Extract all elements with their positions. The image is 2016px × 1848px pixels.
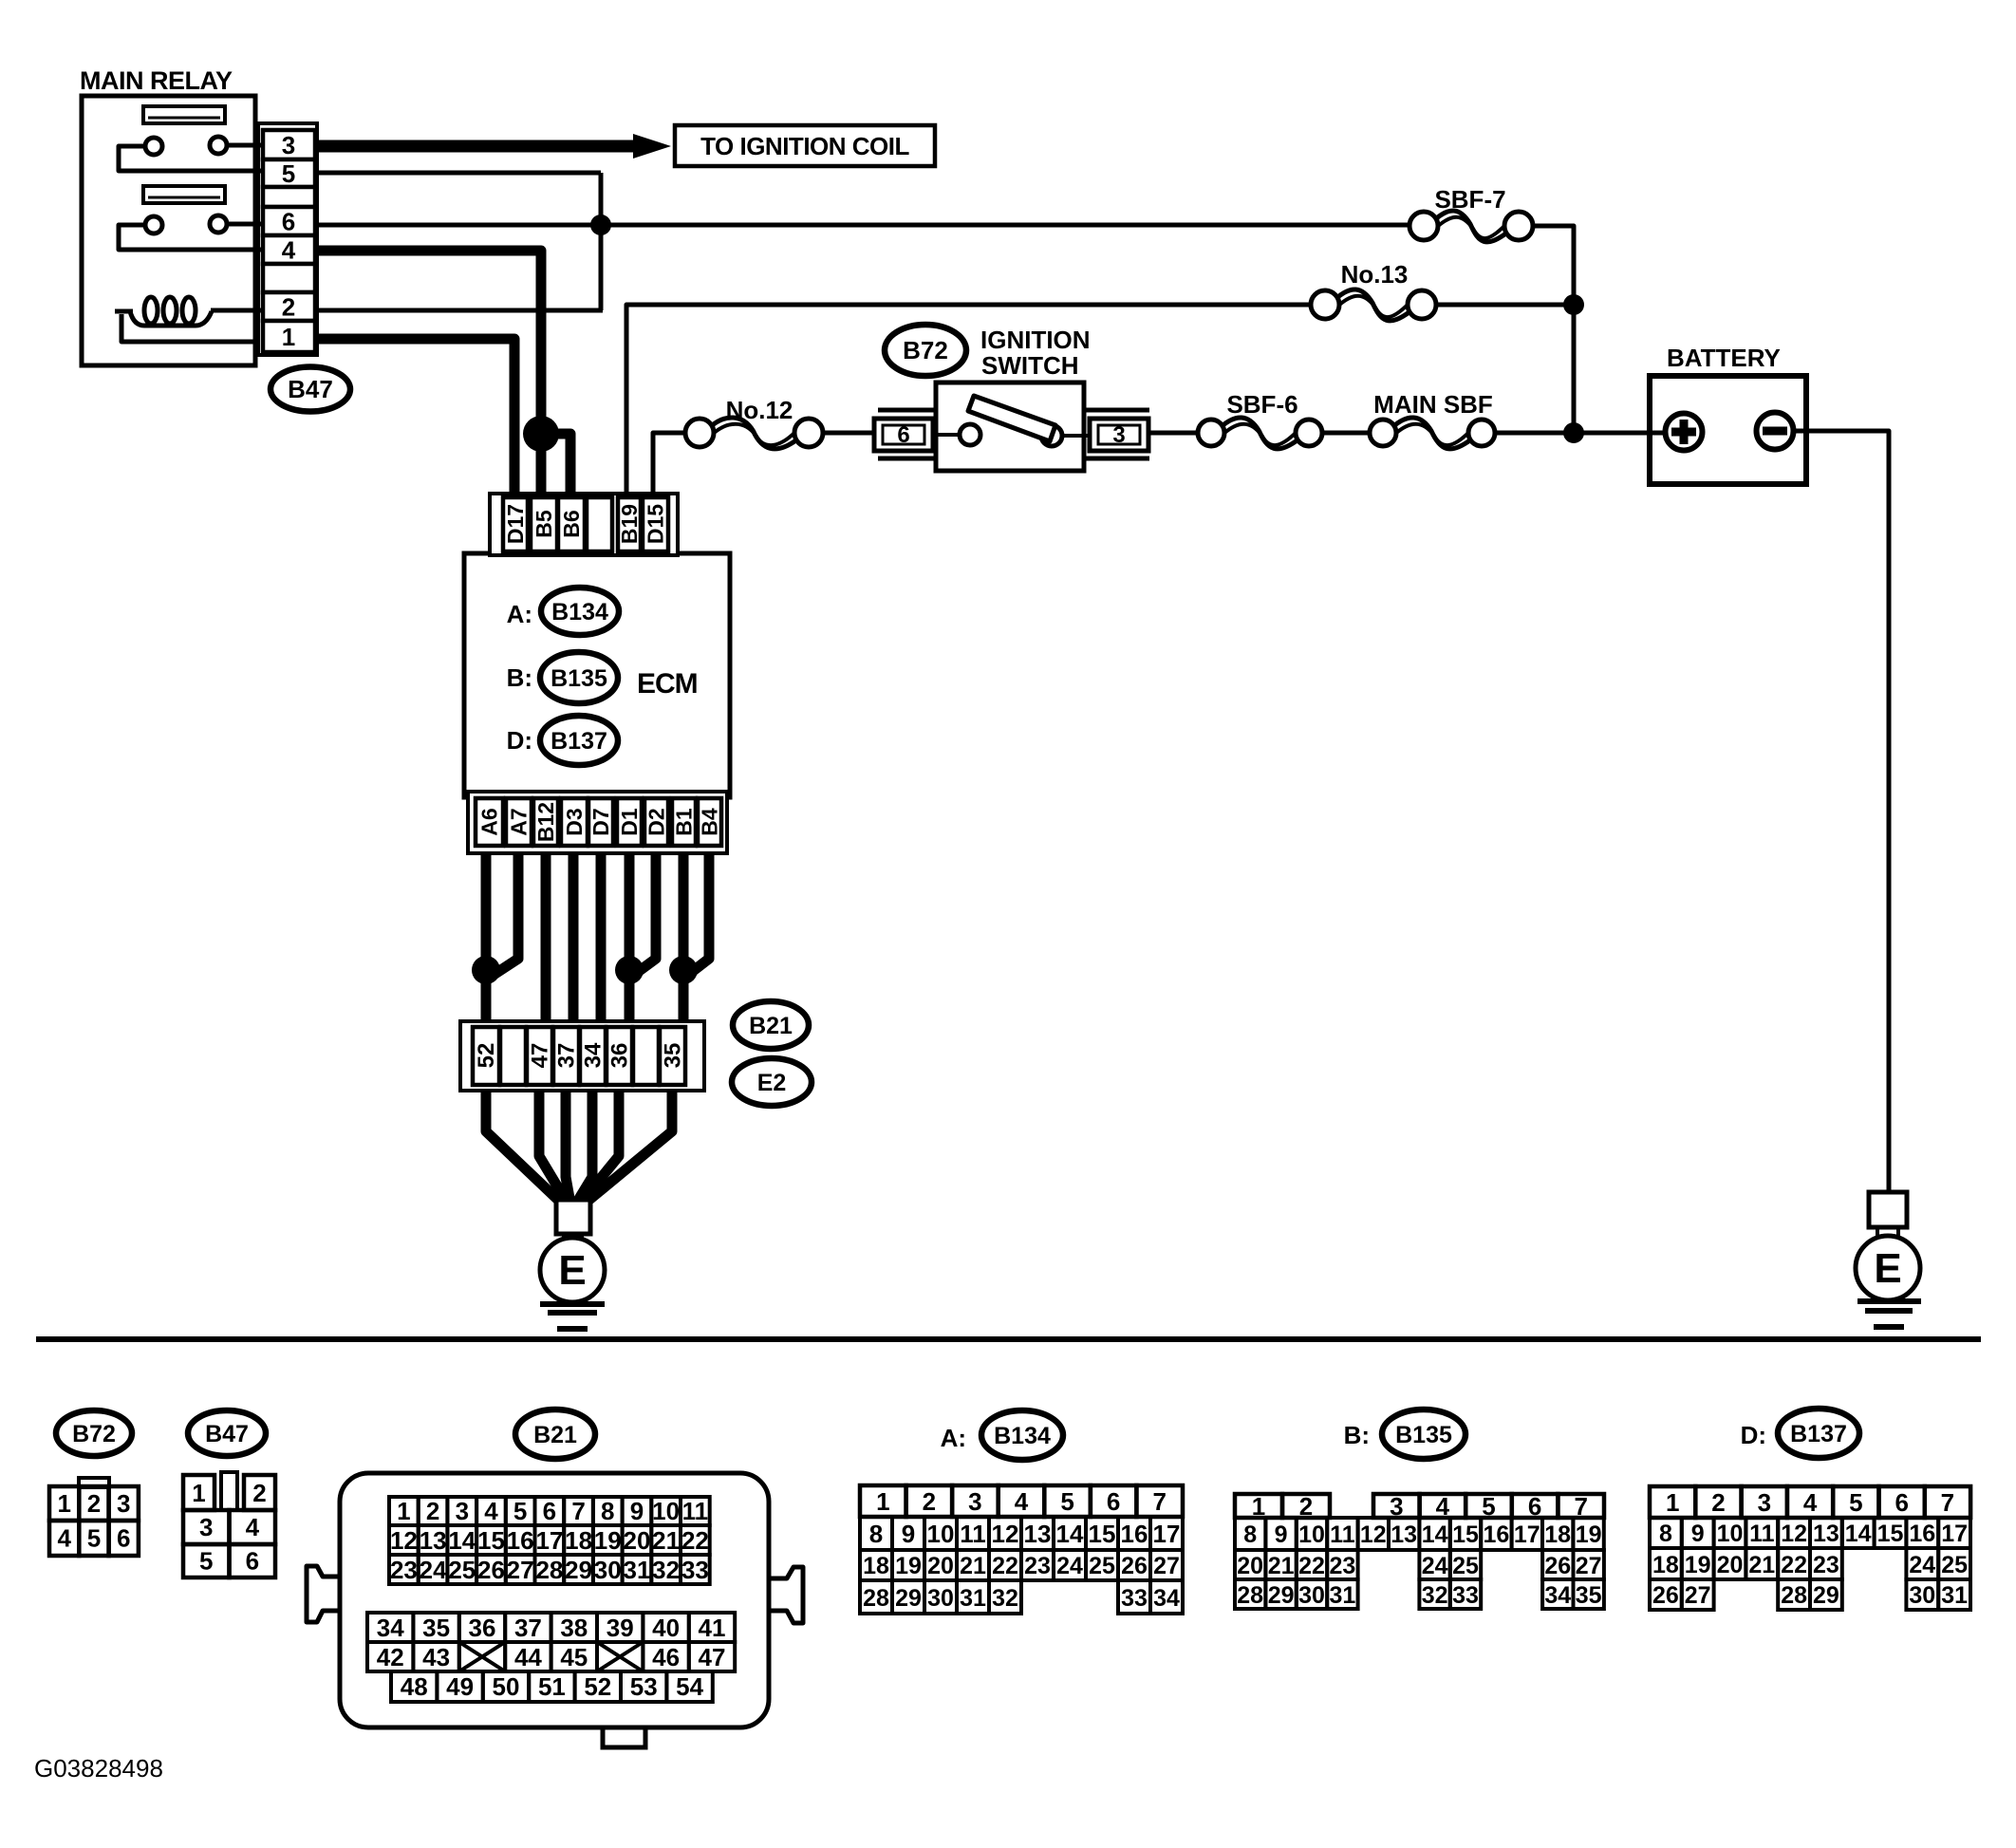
svg-text:B47: B47 (288, 375, 333, 403)
svg-text:35: 35 (1576, 1582, 1602, 1609)
svg-text:B137: B137 (551, 728, 607, 755)
ignition switch lever (968, 396, 1055, 441)
junction dot A6/A7 (472, 956, 500, 984)
svg-text:32: 32 (1422, 1582, 1448, 1609)
svg-text:16: 16 (507, 1526, 534, 1555)
connector B135 pins row 20-23 (1235, 1550, 1265, 1579)
svg-text:28: 28 (535, 1556, 563, 1584)
wire: branch to ECM B6 (thick) (541, 434, 570, 496)
wire: relay pin 2 to node (317, 308, 603, 313)
svg-text:31: 31 (1941, 1582, 1968, 1609)
svg-text:10: 10 (1298, 1521, 1325, 1548)
svg-text:B21: B21 (749, 1013, 793, 1039)
svg-text:2: 2 (426, 1497, 439, 1525)
connector B21 oval label (733, 1001, 809, 1049)
svg-text:22: 22 (992, 1553, 1018, 1579)
svg-text:45: 45 (560, 1643, 588, 1671)
svg-text:18: 18 (863, 1553, 889, 1579)
svg-text:11: 11 (1330, 1521, 1355, 1548)
connector B135 oval (1382, 1409, 1465, 1459)
svg-text:B137: B137 (1790, 1421, 1847, 1447)
svg-text:22: 22 (681, 1526, 709, 1555)
connector B137 pins row 22-23 (1778, 1548, 1810, 1579)
svg-text:1: 1 (282, 323, 295, 351)
svg-text:15: 15 (1877, 1521, 1904, 1547)
wire: node vertical (pins 5/6/2 tie) (599, 173, 604, 310)
connector B137 pins row 28-29 (1778, 1579, 1810, 1610)
svg-text:52: 52 (474, 1043, 499, 1069)
svg-text:30: 30 (927, 1585, 954, 1612)
connector B21 pinout shell (340, 1473, 769, 1727)
wire: relay pin 6 to fuse SBF-7 (317, 223, 1411, 228)
svg-text:19: 19 (1685, 1552, 1711, 1578)
svg-text:2: 2 (1711, 1488, 1725, 1517)
connector B47 pinout grid (183, 1475, 215, 1510)
connector B137 pins row 18-19 (1650, 1548, 1682, 1579)
svg-text:33: 33 (1452, 1582, 1479, 1609)
svg-text:1: 1 (397, 1497, 410, 1525)
wire: pin 52 to ground (funnel) (486, 1091, 562, 1204)
svg-text:34: 34 (581, 1042, 607, 1068)
svg-text:6: 6 (1895, 1488, 1908, 1517)
svg-text:A:: A: (941, 1424, 966, 1452)
svg-text:5: 5 (1060, 1487, 1073, 1516)
wire: No.12 to ECM D15 (653, 433, 687, 495)
svg-text:4: 4 (1015, 1487, 1029, 1516)
wire: switch to SBF-6 (1148, 431, 1199, 436)
svg-text:7: 7 (1941, 1488, 1954, 1517)
svg-text:D1: D1 (617, 808, 642, 836)
svg-text:23: 23 (1024, 1553, 1051, 1579)
svg-text:15: 15 (1452, 1521, 1479, 1548)
wire: No.12 to ignition switch (821, 431, 874, 436)
connector B21 pins row 12-22 (389, 1525, 419, 1555)
svg-text:18: 18 (1652, 1552, 1679, 1578)
svg-text:47: 47 (699, 1643, 726, 1671)
svg-text:1: 1 (57, 1489, 70, 1518)
svg-text:E2: E2 (757, 1070, 787, 1096)
svg-text:49: 49 (446, 1672, 474, 1701)
junction dot bus/No.13 (1563, 294, 1584, 315)
ground symbol (left) (540, 1301, 605, 1307)
connector B137 pins row 24-25 (1906, 1548, 1938, 1579)
svg-text:B6: B6 (559, 510, 584, 537)
svg-text:32: 32 (992, 1585, 1018, 1612)
svg-text:27: 27 (1153, 1553, 1180, 1579)
svg-text:15: 15 (1089, 1520, 1116, 1548)
svg-text:SBF-7: SBF-7 (1434, 185, 1505, 214)
connector B72 oval (pinout) (56, 1410, 132, 1456)
wire: SBF-6 to MAIN SBF (1321, 431, 1371, 436)
svg-text:54: 54 (676, 1672, 703, 1701)
svg-text:17: 17 (1514, 1521, 1540, 1548)
svg-text:37: 37 (514, 1614, 542, 1642)
svg-text:B12: B12 (533, 802, 558, 842)
junction dot B1/B4 (669, 956, 698, 984)
svg-text:B:: B: (1344, 1421, 1370, 1449)
svg-text:10: 10 (927, 1520, 955, 1548)
svg-text:25: 25 (1089, 1553, 1115, 1579)
ECM bottom connector strip (468, 792, 727, 853)
connector B21 pins row 48-54 (391, 1671, 437, 1702)
svg-text:35: 35 (422, 1614, 450, 1642)
svg-text:9: 9 (902, 1520, 915, 1548)
svg-text:12: 12 (992, 1520, 1019, 1548)
svg-text:5: 5 (1849, 1488, 1862, 1517)
svg-text:4: 4 (246, 1513, 260, 1541)
svg-text:4: 4 (1803, 1488, 1818, 1517)
svg-text:2: 2 (252, 1479, 266, 1507)
svg-text:BATTERY: BATTERY (1667, 344, 1781, 372)
svg-text:B134: B134 (551, 599, 608, 625)
svg-text:34: 34 (377, 1614, 404, 1642)
wire: relay pin 3 to ignition coil (thick arrow) (317, 140, 638, 153)
relay contact set 2 (pins 6/4) (227, 222, 266, 227)
svg-text:47: 47 (528, 1043, 553, 1069)
svg-text:30: 30 (594, 1556, 622, 1584)
wire: relay pin 1 to ECM D17 (thick) (317, 339, 514, 496)
svg-text:12: 12 (390, 1526, 418, 1555)
svg-text:46: 46 (652, 1643, 680, 1671)
wire: ECM B4 merge (thick) (688, 853, 709, 975)
wire: pin 36 to ground (580, 1091, 619, 1204)
wire: ECM D3 down (thick) (569, 853, 579, 1023)
svg-text:9: 9 (1691, 1521, 1705, 1547)
svg-text:19: 19 (594, 1526, 622, 1555)
svg-text:17: 17 (535, 1526, 563, 1555)
svg-text:MAIN RELAY: MAIN RELAY (80, 66, 233, 95)
svg-text:13: 13 (1391, 1521, 1417, 1548)
ground E (left) circle (562, 1234, 566, 1240)
svg-text:20: 20 (624, 1526, 651, 1555)
wire: SBF-7 to bus (1531, 226, 1574, 433)
svg-text:19: 19 (1576, 1521, 1602, 1548)
svg-text:4: 4 (282, 236, 296, 265)
wire: ECM B1 down (thick) (679, 853, 689, 1023)
svg-text:6: 6 (543, 1497, 556, 1525)
svg-text:22: 22 (1781, 1552, 1807, 1578)
connector B134 pins row 28-32 (860, 1580, 892, 1614)
svg-text:26: 26 (477, 1556, 505, 1584)
svg-text:ECM: ECM (637, 668, 698, 700)
svg-text:D:: D: (1741, 1421, 1766, 1449)
svg-text:13: 13 (420, 1526, 447, 1555)
svg-text:12: 12 (1781, 1521, 1807, 1547)
junction dot D1/D2 (615, 956, 644, 984)
ground rail (36, 1336, 1981, 1342)
battery + terminal (1666, 414, 1703, 451)
svg-text:24: 24 (420, 1556, 447, 1584)
connector B134 pins row 8-17 (860, 1517, 892, 1550)
svg-text:B21: B21 (533, 1422, 577, 1448)
wire: relay pin 5 to node (317, 171, 601, 176)
svg-text:43: 43 (422, 1643, 450, 1671)
svg-text:50: 50 (493, 1672, 520, 1701)
svg-text:B135: B135 (551, 665, 607, 692)
wire: pin 47 to ground (539, 1091, 568, 1204)
svg-text:3: 3 (1758, 1488, 1771, 1517)
svg-text:D2: D2 (644, 808, 669, 835)
wire: MAIN SBF to battery (1494, 431, 1666, 436)
svg-text:21: 21 (1268, 1553, 1295, 1579)
connector B134 pins 33-34 (1118, 1580, 1150, 1614)
svg-text:B135: B135 (1395, 1422, 1452, 1448)
connector B47 oval label (271, 367, 350, 412)
svg-text:34: 34 (1544, 1582, 1571, 1609)
svg-text:D7: D7 (588, 808, 613, 835)
wire: pin 34 to ground (576, 1091, 592, 1204)
connector B21 pins row 34-41 (367, 1613, 413, 1642)
svg-text:12: 12 (1360, 1521, 1387, 1548)
svg-text:40: 40 (652, 1614, 680, 1642)
connector B137 pins row 20-21 (1714, 1548, 1746, 1579)
ignition switch contacts (936, 433, 960, 437)
svg-text:8: 8 (1659, 1521, 1672, 1547)
svg-text:A7: A7 (507, 808, 532, 835)
svg-text:2: 2 (923, 1487, 936, 1516)
svg-text:33: 33 (1121, 1585, 1148, 1612)
svg-text:18: 18 (1544, 1521, 1571, 1548)
connector B135 pins row 3-7 (1373, 1494, 1420, 1518)
wire: ECM D7 down (thick) (596, 853, 607, 1023)
svg-text:13: 13 (1813, 1521, 1839, 1547)
svg-text:14: 14 (1845, 1521, 1872, 1547)
svg-text:3: 3 (199, 1513, 213, 1541)
connector B21 right latch (769, 1567, 803, 1623)
svg-text:26: 26 (1652, 1582, 1679, 1609)
connector B47 pin strip (258, 123, 317, 355)
svg-text:G03828498: G03828498 (34, 1754, 163, 1783)
svg-text:31: 31 (960, 1585, 986, 1612)
ignition switch body (936, 383, 1084, 471)
svg-text:27: 27 (1576, 1553, 1602, 1579)
wire: ECM B12 down (thick) (541, 853, 551, 1023)
svg-text:51: 51 (538, 1672, 566, 1701)
svg-text:27: 27 (507, 1556, 534, 1584)
svg-text:6: 6 (282, 208, 295, 236)
svg-text:A:: A: (507, 600, 532, 628)
svg-text:B4: B4 (698, 808, 722, 836)
svg-text:4: 4 (484, 1497, 498, 1525)
svg-text:10: 10 (652, 1497, 680, 1525)
wire: ECM D1 down (thick) (625, 853, 635, 1023)
connector B21 pins row 42-47 (367, 1642, 413, 1671)
connector B135 pins 34-35 (1542, 1579, 1573, 1609)
svg-text:3: 3 (117, 1489, 130, 1518)
svg-text:IGNITION: IGNITION (980, 326, 1091, 354)
wire: ECM A7 merge (thick) (494, 853, 518, 975)
svg-text:13: 13 (1024, 1520, 1052, 1548)
svg-text:4: 4 (57, 1524, 71, 1553)
svg-text:16: 16 (1121, 1520, 1148, 1548)
svg-text:8: 8 (1243, 1521, 1257, 1548)
svg-text:29: 29 (565, 1556, 592, 1584)
wire: ECM D2 merge (thick) (634, 853, 656, 975)
svg-text:10: 10 (1717, 1521, 1744, 1547)
svg-text:9: 9 (1275, 1521, 1288, 1548)
svg-text:3: 3 (1112, 422, 1125, 448)
svg-text:29: 29 (1268, 1582, 1295, 1609)
connector B134 oval (981, 1410, 1063, 1460)
connector B21/E2 strip (460, 1021, 704, 1091)
ECM top connector strip (490, 494, 678, 555)
svg-text:B5: B5 (532, 510, 556, 538)
main relay body (82, 96, 255, 365)
svg-text:37: 37 (554, 1043, 580, 1069)
svg-text:41: 41 (699, 1614, 726, 1642)
svg-text:23: 23 (390, 1556, 418, 1584)
svg-text:B19: B19 (617, 504, 642, 544)
svg-text:24: 24 (1422, 1553, 1448, 1579)
connector B135 pins row 8-19 (1235, 1518, 1265, 1550)
svg-text:B:: B: (507, 663, 532, 692)
connector B135 pins 24-25 (1419, 1550, 1449, 1579)
svg-text:17: 17 (1941, 1521, 1968, 1547)
svg-text:31: 31 (624, 1556, 651, 1584)
svg-text:25: 25 (448, 1556, 476, 1584)
svg-text:14: 14 (448, 1526, 476, 1555)
connector B137 oval (1778, 1409, 1859, 1458)
svg-text:24: 24 (1056, 1553, 1083, 1579)
svg-text:17: 17 (1153, 1520, 1181, 1548)
wire: No.13 to ECM B19 (626, 305, 1313, 495)
svg-text:SWITCH: SWITCH (981, 351, 1079, 380)
connector B135 pins row 1-2 (1235, 1494, 1282, 1518)
svg-text:1: 1 (876, 1487, 889, 1516)
svg-text:1: 1 (1666, 1488, 1679, 1517)
svg-text:26: 26 (1121, 1553, 1148, 1579)
svg-text:D15: D15 (644, 504, 668, 544)
connector B21 pins row 1-11 (389, 1497, 419, 1525)
svg-text:35: 35 (661, 1043, 686, 1069)
relay coil (pins 2/1) (115, 309, 133, 314)
svg-text:29: 29 (895, 1585, 922, 1612)
svg-text:MAIN SBF: MAIN SBF (1373, 390, 1493, 419)
svg-text:8: 8 (601, 1497, 614, 1525)
svg-text:14: 14 (1056, 1520, 1084, 1548)
svg-text:5: 5 (199, 1547, 213, 1576)
connector B21 left latch (307, 1566, 340, 1622)
connector E2 oval label (732, 1058, 812, 1106)
connector B135 pins 26-27 (1542, 1550, 1573, 1579)
connector B21 oval (pinout) (515, 1409, 595, 1459)
svg-text:B47: B47 (205, 1421, 249, 1447)
svg-text:1: 1 (192, 1479, 205, 1507)
svg-text:D3: D3 (562, 808, 587, 835)
svg-text:B72: B72 (903, 336, 948, 364)
svg-text:TO IGNITION COIL: TO IGNITION COIL (700, 132, 909, 160)
connector B72 pinout grid (49, 1486, 79, 1521)
ignition switch terminal 3 (1084, 408, 1149, 413)
svg-text:30: 30 (1909, 1582, 1935, 1609)
svg-text:B134: B134 (994, 1423, 1051, 1449)
svg-text:33: 33 (681, 1556, 709, 1584)
svg-text:3: 3 (282, 131, 295, 159)
connector B134 pins row 18-27 (860, 1550, 892, 1580)
svg-text:42: 42 (377, 1643, 404, 1671)
svg-text:5: 5 (87, 1524, 101, 1553)
svg-text:19: 19 (895, 1553, 922, 1579)
svg-text:2: 2 (282, 293, 295, 322)
ground E (right) circle (1876, 1227, 1879, 1237)
ignition switch terminal 6 (878, 408, 936, 413)
svg-text:21: 21 (1748, 1552, 1775, 1578)
connector B21 bottom tab (603, 1727, 645, 1747)
svg-text:52: 52 (584, 1672, 611, 1701)
connector B137 pins row 26-27 (1650, 1579, 1682, 1610)
junction dot on pin 4 wire (523, 416, 559, 452)
svg-text:26: 26 (1544, 1553, 1571, 1579)
ground E (right) terminal box (1869, 1192, 1907, 1227)
junction dot pins 5/6 node (590, 215, 611, 235)
svg-text:5: 5 (282, 159, 295, 188)
wire: pin 35 to ground (585, 1091, 672, 1204)
battery body (1650, 376, 1806, 484)
svg-text:30: 30 (1298, 1582, 1325, 1609)
wire: battery - to ground E (1794, 431, 1889, 1194)
svg-text:34: 34 (1153, 1585, 1180, 1612)
svg-text:53: 53 (630, 1672, 658, 1701)
svg-text:6: 6 (117, 1524, 130, 1553)
svg-text:20: 20 (927, 1553, 954, 1579)
svg-text:D:: D: (507, 726, 532, 755)
svg-text:11: 11 (960, 1520, 986, 1548)
svg-text:25: 25 (1452, 1553, 1479, 1579)
svg-text:38: 38 (560, 1614, 588, 1642)
svg-text:48: 48 (401, 1672, 428, 1701)
svg-text:28: 28 (1237, 1582, 1263, 1609)
svg-text:D17: D17 (503, 504, 528, 544)
connector B72 pinout tab (79, 1478, 109, 1487)
svg-text:23: 23 (1329, 1553, 1355, 1579)
relay contact set 1 (pins 3/5) (227, 143, 266, 148)
svg-text:23: 23 (1813, 1552, 1839, 1578)
svg-text:E: E (558, 1247, 586, 1294)
svg-text:24: 24 (1909, 1552, 1935, 1578)
svg-text:36: 36 (469, 1614, 496, 1642)
svg-text:29: 29 (1813, 1582, 1839, 1609)
svg-text:22: 22 (1298, 1553, 1325, 1579)
svg-text:3: 3 (456, 1497, 469, 1525)
svg-text:20: 20 (1237, 1553, 1263, 1579)
svg-text:20: 20 (1717, 1552, 1744, 1578)
svg-text:18: 18 (565, 1526, 592, 1555)
relay slot contact bar 2 (143, 186, 225, 203)
svg-text:3: 3 (968, 1487, 981, 1516)
svg-text:36: 36 (607, 1043, 633, 1069)
relay slot contact bar 1 (143, 106, 225, 123)
svg-text:21: 21 (960, 1553, 986, 1579)
svg-text:39: 39 (607, 1614, 634, 1642)
svg-text:6: 6 (897, 422, 909, 448)
svg-text:32: 32 (652, 1556, 680, 1584)
svg-text:14: 14 (1422, 1521, 1448, 1548)
ECM body (464, 553, 730, 797)
connector B135 pins 32-33 (1419, 1579, 1449, 1609)
connector B47 oval (pinout) (188, 1410, 266, 1456)
connector B134 pins row 1-7 (860, 1485, 906, 1517)
wire: relay pin 4 to ECM B5 (thick) (317, 251, 541, 496)
svg-text:A6: A6 (477, 808, 502, 835)
battery - terminal (1757, 413, 1794, 450)
svg-text:7: 7 (1152, 1487, 1166, 1516)
ground symbol (right) (1857, 1298, 1921, 1304)
svg-text:16: 16 (1909, 1521, 1935, 1547)
svg-text:No.13: No.13 (1341, 260, 1409, 289)
label box TO IGNITION COIL (675, 125, 935, 166)
wire: ECM A6 down (thick) (481, 853, 492, 1023)
svg-text:7: 7 (571, 1497, 585, 1525)
